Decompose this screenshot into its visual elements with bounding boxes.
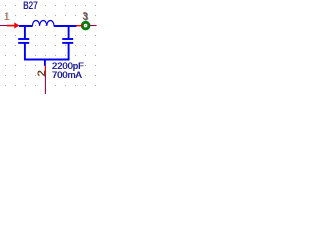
junction stem to capacitor C1 [24,26,26,39]
pin 1 arrow (red) [7,25,15,27]
capacitor C2 top plate [62,38,73,40]
pin 3 red segment [76,25,83,27]
wire net from coil to pin 3 [54,25,77,27]
grid dots [0,0,98,94]
pin 2 red segment [44,66,46,75]
junction stem to capacitor C2 [68,26,70,39]
pin 3 node ring (green) [82,22,89,29]
pin number 1 [4,11,9,23]
capacitor C2 lower stem [68,44,70,60]
pin number 3 [83,11,88,23]
capacitor C1 lower stem [24,44,26,60]
pin number 2 (rotated) [36,70,48,76]
capacitor C1 top plate [18,38,29,40]
value label 700mA [52,69,82,80]
pin 3 stub (purple) [90,25,97,27]
capacitor C2 bottom plate [62,42,73,44]
pin 1 stub (purple) [0,25,8,27]
wire net from arrow to coil [19,25,33,27]
value label 2200pF [52,60,84,71]
pin 2 net stem (blue) [44,59,46,66]
label B27 [23,0,37,12]
inductor B27 coil [32,20,54,25]
capacitor C1 bottom plate [18,42,29,44]
bottom rail [24,59,70,61]
pin 2 stub (purple) [44,75,46,94]
